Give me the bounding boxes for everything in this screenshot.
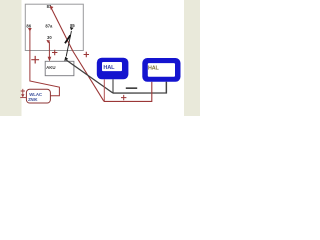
svg-text:87a: 87a	[45, 23, 53, 28]
svg-text:HAL: HAL	[148, 65, 159, 71]
HAL2 gray lead	[165, 82, 167, 93]
lamp HAL2 box	[142, 58, 180, 82]
arrowhead at 86	[28, 28, 32, 32]
black wire from 85 area down to AKU minus	[66, 31, 71, 57]
wire: red 86 wire down to switch	[30, 31, 60, 96]
right beige margin strip	[184, 0, 200, 116]
HAL1 gray lead	[112, 79, 114, 93]
minus rail	[113, 82, 166, 93]
svg-text:HAL: HAL	[103, 65, 115, 71]
battery AKU box	[45, 61, 74, 75]
HAL1 red lead	[103, 79, 105, 101]
plus label near 30 wire	[52, 50, 57, 55]
wire: red segment to plus rail corner	[73, 51, 104, 101]
plus label near 86 wire below box	[31, 56, 39, 64]
small red down arrow at switch	[22, 93, 24, 94]
arrowhead at 87	[50, 6, 54, 10]
wire: red line from 87 arrow to box corner	[51, 7, 73, 51]
gray wire from AKU minus to minus rail	[66, 60, 114, 94]
plus label right of relay box	[84, 52, 89, 57]
relay box outline	[25, 4, 83, 50]
plus label at switch	[21, 89, 25, 93]
switch left lead	[20, 97, 26, 99]
black arrowhead at AKU minus terminal	[64, 57, 68, 62]
lamp HAL1 box	[97, 58, 129, 80]
wire: red 30-to-AKU vertical	[48, 42, 50, 58]
svg-text:86: 86	[26, 24, 31, 29]
arrowhead at 30	[46, 40, 50, 44]
left beige margin strip	[0, 0, 22, 116]
black arrowhead at 85	[70, 27, 74, 30]
svg-text:30: 30	[47, 35, 52, 40]
arrowhead at AKU plus terminal	[48, 57, 52, 62]
plus label at rail	[121, 95, 126, 100]
switch WLACZNIK box	[26, 89, 50, 103]
page background	[0, 0, 200, 116]
svg-text:ZNIK: ZNIK	[28, 97, 37, 102]
plus rail	[104, 82, 152, 102]
switch blade	[65, 35, 70, 43]
minus dash label	[126, 87, 137, 89]
svg-text:AKU: AKU	[46, 65, 56, 70]
svg-text:85: 85	[70, 23, 75, 28]
